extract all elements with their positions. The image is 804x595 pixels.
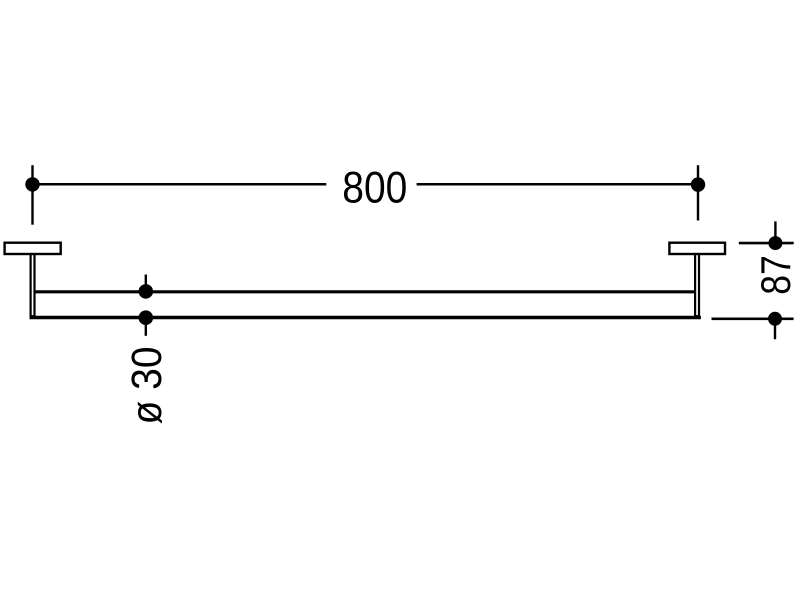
right wall plate — [669, 243, 725, 254]
left wall plate — [5, 243, 61, 254]
right support post — [695, 250, 699, 316]
towel bar: top outline of tube — [35, 290, 697, 293]
dimension 800: left extension line — [31, 165, 33, 225]
dimension 800: left terminator dot — [25, 177, 39, 191]
dimension 800: dimension line left segment — [33, 183, 327, 186]
dimension 87: top extension line — [739, 242, 794, 245]
towel bar: bottom outline of tube — [30, 316, 701, 319]
dimension 800: right terminator dot — [691, 177, 705, 191]
svg-text:800: 800 — [342, 163, 407, 212]
dimension 87: bottom extension line — [712, 317, 794, 320]
dimension ø30: extension line above top dot — [145, 275, 147, 292]
dimension 800: dimension line right segment — [417, 183, 698, 186]
dimension 800: right extension line — [697, 165, 699, 220]
dimension ø30: extension line below bottom dot — [145, 318, 147, 336]
dimension ø30: bottom terminator dot — [139, 310, 154, 325]
dimension 87: stub above top dot — [774, 221, 776, 243]
dimension 87: stub below bottom dot — [774, 319, 776, 339]
dimension 87: top terminator dot — [768, 236, 782, 250]
dimension 87: bottom terminator dot — [768, 312, 782, 326]
dimension ø30: top terminator dot — [139, 284, 154, 299]
left support post — [31, 250, 35, 316]
svg-text:ø 30: ø 30 — [123, 347, 171, 425]
svg-text:87: 87 — [752, 255, 799, 295]
